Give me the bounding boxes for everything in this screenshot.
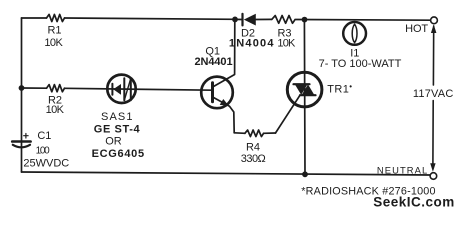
svg-text:7- TO 100-WATT: 7- TO 100-WATT	[319, 58, 402, 70]
triac TR1 circle	[287, 72, 322, 107]
triac TR1 top bar	[294, 83, 310, 85]
wire R4 left lead	[234, 132, 245, 135]
svg-text:C1: C1	[37, 130, 51, 142]
wire left rail	[21, 18, 23, 172]
diode D2 triangle	[244, 14, 256, 26]
wire middle rail	[22, 87, 47, 89]
resistor R4	[245, 130, 264, 137]
lamp I1 filament vesica	[352, 24, 357, 42]
diode D2 anode wire	[256, 18, 272, 20]
svg-text:100: 100	[36, 145, 51, 156]
wire bottom rail	[22, 172, 431, 175]
arrow up below HOT	[431, 24, 437, 33]
wire dot to D2 bar	[235, 18, 243, 20]
lamp I1 circle	[343, 22, 366, 45]
svg-text:10K: 10K	[277, 37, 296, 49]
resistor R2	[47, 85, 65, 92]
triac TR1 vertical through line	[303, 20, 306, 175]
capacitor C1 plus sign	[24, 134, 28, 139]
junction dot at TR1 top	[302, 17, 308, 23]
wire top rail	[22, 17, 47, 19]
wire middle rail to Q1 base	[65, 88, 213, 90]
svg-text:SeekIC.com: SeekIC.com	[373, 194, 455, 209]
wire top rail to D2 junction	[65, 18, 236, 19]
svg-text:SAS1: SAS1	[101, 111, 134, 123]
SAS1 И diagonal	[124, 78, 131, 100]
svg-text:GE ST-4: GE ST-4	[94, 123, 141, 135]
terminal NEUTRAL circle	[430, 173, 437, 180]
junction dot at D2/collector	[232, 17, 238, 23]
wire R3 to lamp	[296, 19, 430, 22]
wire R4 right lead	[264, 132, 276, 134]
wire right rail lower	[432, 101, 434, 165]
svg-text:1N4004: 1N4004	[229, 37, 275, 49]
SAS1 diode cathode bar	[111, 84, 113, 95]
svg-text:2N4401: 2N4401	[195, 56, 233, 68]
terminal HOT circle	[431, 17, 438, 24]
diode D2 cathode bar	[241, 14, 243, 26]
junction dot at TR1 bottom	[302, 171, 308, 177]
svg-text:R4: R4	[246, 142, 260, 154]
svg-text:25WVDC: 25WVDC	[23, 157, 69, 169]
Q1 emitter path	[214, 98, 235, 133]
svg-text:ECG6405: ECG6405	[92, 148, 145, 160]
svg-text:330Ω: 330Ω	[241, 153, 266, 165]
svg-text:10K: 10K	[46, 104, 65, 116]
svg-text:HOT: HOT	[405, 23, 428, 35]
Q1 collector path	[214, 20, 235, 87]
Q1 base bar	[211, 83, 214, 102]
svg-text:R1: R1	[47, 25, 61, 37]
wire right rail upper	[432, 26, 434, 85]
svg-text:TR1•: TR1•	[327, 82, 352, 96]
opto/trigger SAS1 circle	[107, 75, 135, 103]
SAS1 И right bar	[130, 78, 132, 100]
triac TR1 triangle down	[295, 84, 308, 95]
resistor R3	[272, 15, 295, 23]
svg-text:117VAC: 117VAC	[413, 88, 454, 100]
triac TR1 bottom bar	[300, 94, 316, 96]
junction dot at left middle	[19, 85, 25, 91]
svg-text:NEUTRAL: NEUTRAL	[377, 165, 428, 176]
svg-text:OR: OR	[105, 135, 122, 147]
svg-text:10K: 10K	[44, 37, 63, 49]
wire gate diagonal to TR1	[276, 95, 301, 133]
resistor R1	[47, 14, 65, 21]
SAS1 И left bar	[123, 78, 125, 100]
triac TR1 triangle up	[302, 84, 315, 95]
SAS1 diode triangle	[113, 84, 121, 95]
arrow down above NEUTRAL	[430, 163, 435, 172]
capacitor C1 plate bottom curved	[13, 145, 30, 148]
transistor Q1 circle	[201, 77, 233, 109]
capacitor C1 plate top	[12, 140, 30, 143]
Q1 emitter arrowhead	[220, 99, 229, 106]
